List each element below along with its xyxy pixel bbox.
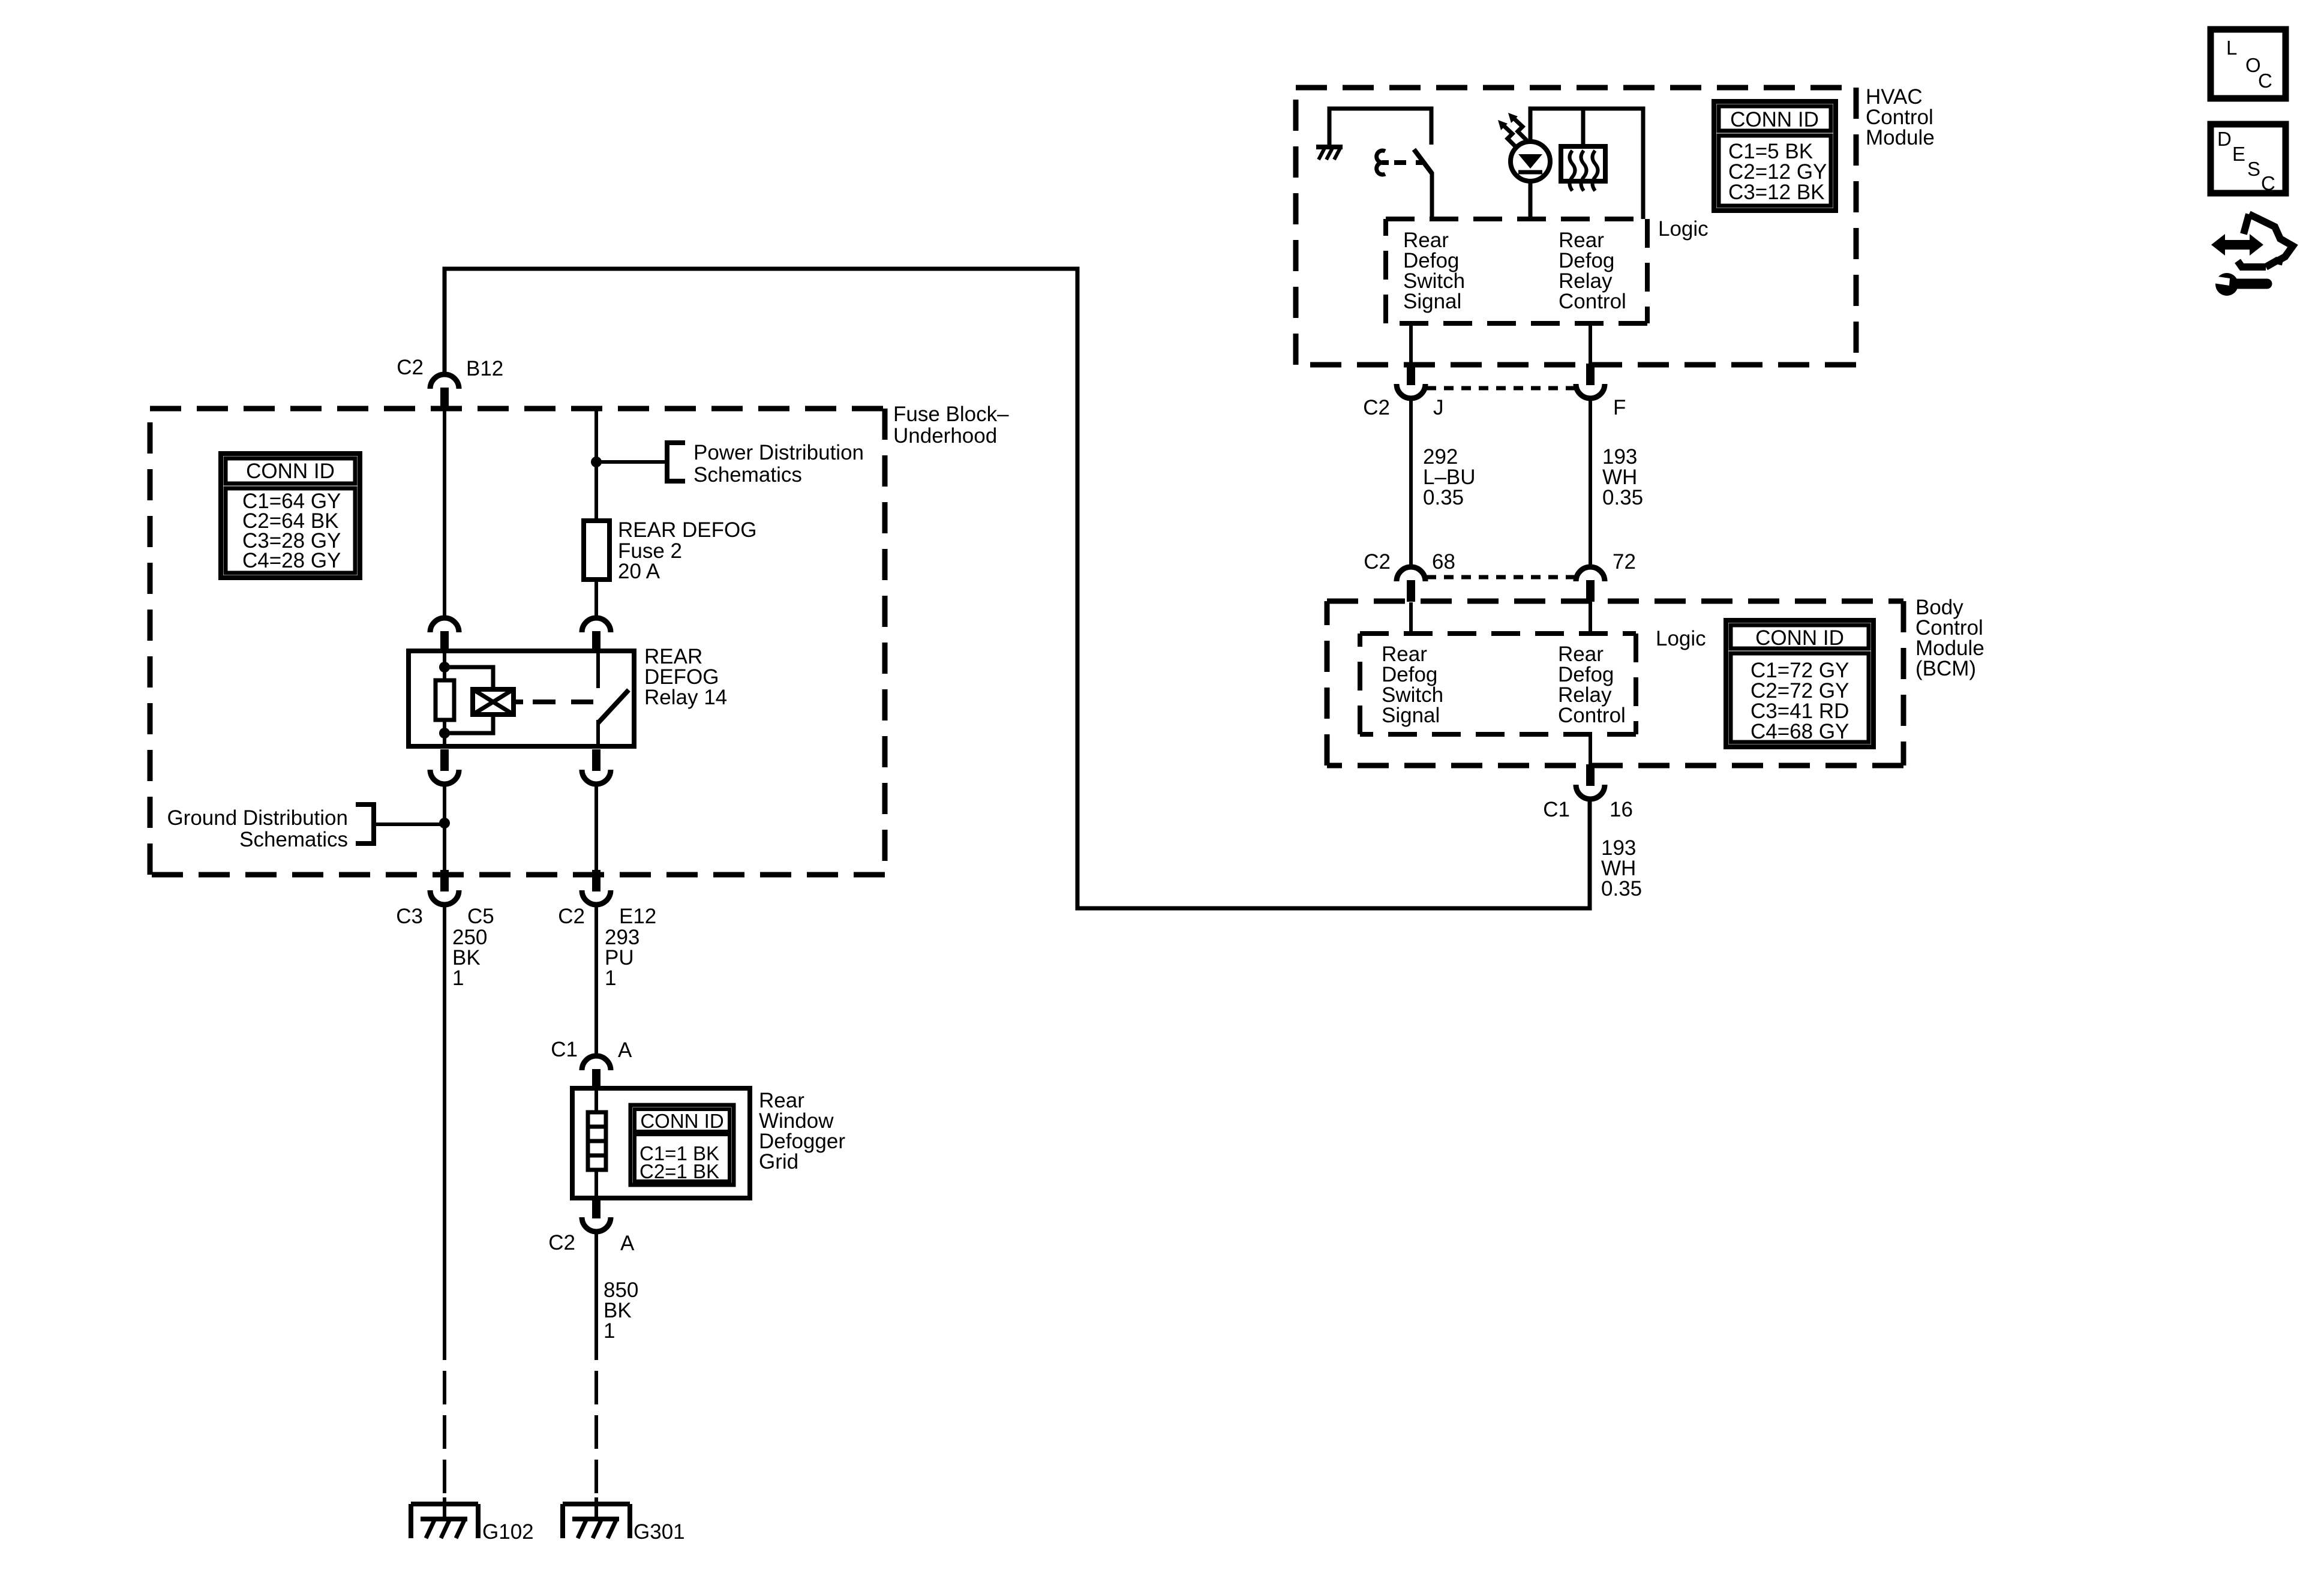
navigation icon: wrench: [2215, 273, 2238, 296]
svg-text:G102: G102: [482, 1520, 534, 1544]
relay switch: [596, 651, 600, 688]
HVAC control module dashed box: [1296, 88, 1856, 365]
svg-text:1: 1: [452, 966, 464, 990]
BCM logic dashed box: [1360, 634, 1636, 734]
LOC icon box: [2211, 29, 2286, 98]
svg-text:C: C: [2261, 172, 2275, 194]
svg-text:A: A: [618, 1038, 632, 1062]
svg-text:CONN ID: CONN ID: [1730, 108, 1819, 131]
svg-text:Underhood: Underhood: [893, 424, 997, 448]
fuse block - underhood dashed box: [150, 409, 885, 875]
svg-text:F: F: [1613, 396, 1626, 419]
navigation icon: double arrow: [2211, 234, 2263, 256]
CONN ID table (grid): [630, 1105, 734, 1185]
svg-text:68: 68: [1432, 550, 1455, 574]
svg-text:C2: C2: [1364, 550, 1391, 574]
wire: left bus inside fuse block: [443, 410, 446, 618]
node: junction to power distribution: [591, 457, 602, 467]
svg-text:20 A: 20 A: [618, 560, 660, 583]
svg-text:0.35: 0.35: [1602, 486, 1643, 509]
svg-text:C2: C2: [397, 356, 424, 379]
wire: switch signal out of HVAC: [1409, 323, 1413, 365]
svg-text:Signal: Signal: [1403, 290, 1461, 313]
CONN ID table (fuse block): [221, 454, 360, 578]
connector C2 A (grid bottom): [582, 1197, 611, 1232]
svg-text:E: E: [2232, 143, 2245, 165]
svg-text:C3=12 BK: C3=12 BK: [1728, 181, 1825, 204]
ground G102: [411, 1504, 478, 1538]
connector 72: [1576, 567, 1605, 602]
svg-text:C4=68 GY: C4=68 GY: [1750, 720, 1849, 743]
svg-text:C1: C1: [1543, 798, 1570, 821]
ground (HVAC internal): [1316, 145, 1343, 149]
wire: switch ground loop: [1329, 109, 1431, 147]
connector C1 A (grid top): [582, 1056, 611, 1091]
connector C2 B12: [430, 374, 459, 409]
wire: relay control out of BCM: [1589, 734, 1592, 766]
svg-text:B12: B12: [466, 357, 503, 380]
wire: ground run G102: [443, 905, 446, 1360]
LED light arrows: [1503, 125, 1517, 148]
connector: relay pin 3 (bottom left): [430, 749, 459, 784]
svg-text:Power Distribution: Power Distribution: [693, 441, 864, 464]
heater indicator (box with heat waves): [1561, 146, 1605, 181]
connector C1 16: [1576, 764, 1605, 799]
svg-text:Module: Module: [1866, 126, 1935, 149]
svg-text:Schematics: Schematics: [239, 828, 348, 851]
wire: LED / heater loop: [1530, 109, 1643, 219]
wire to ground distribution bracket: [374, 822, 445, 826]
wire: relay to ground distribution junction: [443, 784, 446, 875]
wire: defogger feed to grid: [594, 905, 598, 1056]
svg-text:C2: C2: [1363, 396, 1390, 419]
connector: relay pin 1 (top left): [430, 618, 459, 653]
svg-text:L: L: [2226, 37, 2237, 59]
wire: relay output to E12: [594, 784, 598, 875]
svg-text:C1: C1: [551, 1038, 578, 1061]
fuse REAR DEFOG Fuse 2 20 A: [584, 521, 609, 580]
wire: 68 into BCM logic: [1409, 602, 1413, 634]
wire: battery feed from C2 B12 up and across to BCM C1 16: [445, 269, 1590, 908]
node: relay coil bottom: [439, 728, 450, 739]
ground G301: [563, 1504, 630, 1538]
svg-text:72: 72: [1613, 550, 1636, 574]
wire through grid: [594, 1089, 598, 1198]
svg-text:G301: G301: [633, 1520, 685, 1544]
connector F: [1576, 364, 1605, 398]
svg-text:Schematics: Schematics: [693, 463, 802, 487]
connector C3 C5: [430, 870, 459, 905]
svg-text:C2=1 BK: C2=1 BK: [639, 1160, 719, 1182]
svg-text:1: 1: [603, 1319, 615, 1343]
svg-text:C2: C2: [558, 905, 585, 928]
svg-text:16: 16: [1610, 798, 1633, 821]
rear window defogger grid box: [572, 1088, 750, 1198]
svg-text:C5: C5: [467, 905, 494, 928]
svg-text:CONN ID: CONN ID: [1755, 626, 1844, 650]
connector C2 J: [1397, 364, 1425, 398]
svg-text:Control: Control: [1558, 704, 1626, 727]
body control module dashed box: [1327, 601, 1903, 766]
svg-text:S: S: [2247, 158, 2260, 180]
svg-text:C3: C3: [396, 905, 423, 928]
navigation icon: connector outline: [2238, 214, 2293, 267]
svg-text:J: J: [1433, 396, 1444, 419]
node: relay coil top: [439, 662, 450, 673]
svg-text:Logic: Logic: [1658, 217, 1709, 241]
CONN ID table (HVAC): [1714, 101, 1836, 211]
svg-text:D: D: [2217, 128, 2232, 150]
wire: 72 into BCM logic: [1589, 602, 1592, 634]
connector: relay pin 2 (top right): [582, 618, 611, 653]
svg-text:(BCM): (BCM): [1915, 657, 1976, 680]
connector C2 E12: [582, 870, 611, 905]
svg-text:C2: C2: [548, 1231, 575, 1254]
svg-text:CONN ID: CONN ID: [246, 460, 335, 483]
resistor (relay): [436, 680, 454, 720]
svg-text:Relay 14: Relay 14: [644, 686, 727, 709]
wire 193 WH 0.35: [1589, 398, 1592, 567]
svg-text:Grid: Grid: [759, 1150, 798, 1173]
wire 292 L-BU 0.35: [1409, 398, 1413, 567]
svg-text:0.35: 0.35: [1601, 877, 1642, 900]
wire: relay control out of HVAC: [1589, 323, 1592, 365]
svg-text:Logic: Logic: [1656, 627, 1706, 650]
svg-text:Fuse Block–: Fuse Block–: [893, 403, 1009, 426]
HVAC logic dashed box: [1386, 219, 1647, 323]
node: ground distribution junction: [439, 818, 450, 828]
svg-text:E12: E12: [619, 905, 656, 928]
relay mechanical link (dashed): [514, 700, 523, 704]
in-line connector dotted line (68-72): [1427, 575, 1575, 580]
connector C2 68: [1397, 567, 1425, 602]
grid heating element: [588, 1112, 606, 1170]
svg-text:C: C: [2258, 70, 2272, 92]
LED indicator: [1511, 142, 1550, 181]
relay coil branch wires: [443, 651, 446, 746]
rear defog switch (momentary): [1377, 151, 1385, 175]
CONN ID table (BCM): [1726, 620, 1873, 747]
svg-text:Signal: Signal: [1382, 704, 1440, 727]
relay REAR DEFOG Relay 14 box: [409, 651, 634, 746]
svg-text:Control: Control: [1559, 290, 1626, 313]
ground distribution schematics bracket: [356, 804, 374, 843]
svg-text:A: A: [620, 1232, 635, 1255]
svg-text:0.35: 0.35: [1423, 486, 1464, 509]
wire: fuse branch: [594, 409, 598, 618]
relay coil (box with X): [473, 689, 514, 715]
svg-text:1: 1: [605, 966, 616, 990]
wire to power distribution bracket: [596, 460, 667, 464]
svg-text:C4=28 GY: C4=28 GY: [242, 549, 341, 572]
DESC icon box: [2211, 124, 2286, 193]
power distribution schematics bracket: [667, 443, 685, 481]
in-line connector dotted line (J-F): [1427, 386, 1575, 391]
wire: grid to ground G301: [594, 1232, 598, 1360]
svg-text:REAR DEFOG: REAR DEFOG: [618, 518, 756, 542]
svg-text:Ground Distribution: Ground Distribution: [167, 806, 348, 830]
connector: relay pin 4 (bottom right): [582, 749, 611, 784]
svg-text:CONN ID: CONN ID: [640, 1110, 723, 1132]
